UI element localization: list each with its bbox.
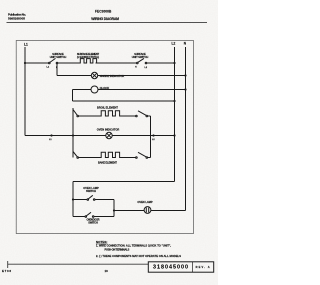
wire oven left rail (72, 108, 74, 158)
svg-text:OVEN LAMP: OVEN LAMP (137, 200, 152, 204)
label surface unit switch (right) (132, 52, 149, 59)
footer rule (8, 263, 149, 265)
svg-text:NOTES:: NOTES: (96, 240, 107, 244)
node junction signal-N (184, 74, 186, 76)
switch oven door switch (85, 212, 94, 217)
switch surface unit switch (right) (135, 58, 148, 68)
wire oven feed from L1 (25, 135, 73, 137)
wire oven lamp row to N (151, 210, 186, 212)
label surface element (77, 52, 100, 59)
switch bake left (73, 152, 78, 159)
wire clock row to N (98, 89, 186, 91)
wire row1 left (25, 62, 49, 64)
resistor bake element (100, 152, 121, 157)
wire lamp block left vertical (72, 182, 74, 217)
wire oven lamp switch row (73, 199, 88, 201)
wire right rail (150, 116, 152, 158)
svg-text:(1 SHOWN 4 TOTAL): (1 SHOWN 4 TOTAL) (77, 55, 99, 59)
svg-text:BAKE ELEMENT: BAKE ELEMENT (98, 160, 117, 164)
resistor broil element (100, 111, 121, 116)
svg-text:UNIT SWITCH: UNIT SWITCH (50, 55, 67, 59)
svg-text:318045000: 318045000 (153, 265, 188, 271)
node terminal L1 tap (50, 134, 52, 136)
svg-text:WIRING DIAGRAM: WIRING DIAGRAM (91, 17, 119, 21)
svg-text:5995268005: 5995268005 (8, 17, 25, 21)
svg-text:L2: L2 (172, 42, 176, 46)
switch oven lamp switch (87, 195, 95, 200)
node junction feed-L2 (173, 100, 175, 102)
label oven lamp switch (83, 186, 99, 193)
svg-text:REV. A: REV. A (196, 265, 210, 269)
wire signal row to N (98, 75, 186, 77)
wire lamp block top (73, 181, 175, 183)
wire broil rung right (121, 115, 136, 117)
wire clock row left (73, 89, 92, 91)
lamp oven lamp (144, 207, 151, 214)
wire lamp switch row right (95, 199, 114, 201)
svg-text:SWITCH: SWITCH (88, 221, 98, 225)
svg-text:BROIL ELEMENT: BROIL ELEMENT (97, 106, 118, 110)
svg-text:E706: E706 (2, 269, 11, 273)
wire row1 right (96, 62, 138, 64)
label surface unit switch (left) (50, 52, 67, 59)
wire lamp block right vertical (113, 200, 115, 217)
label oven door switch (87, 218, 100, 225)
svg-text:OVEN INDICATOR: OVEN INDICATOR (97, 127, 120, 131)
svg-text:1. WIRE CONNECTION: ALL TERMIN: 1. WIRE CONNECTION: ALL TERMINALS QUICK … (96, 244, 171, 248)
wire bake rung right (121, 157, 136, 159)
svg-text:10: 10 (105, 269, 109, 273)
wire oven lamp row left (114, 210, 144, 212)
resistor surface element (79, 59, 97, 63)
wire indicator rung left (73, 135, 106, 137)
node junction clock-N (184, 88, 186, 90)
node junction block right (113, 209, 115, 211)
footer tick mark (7, 261, 9, 268)
wire door switch row right (94, 216, 114, 218)
part number box (148, 262, 213, 272)
switch broil left (73, 110, 78, 117)
wire row1 middle (58, 62, 79, 64)
notes text (96, 240, 181, 258)
header rule (7, 21, 208, 23)
node junction row1-L2 (173, 62, 175, 64)
node junction feed-left rail (72, 134, 74, 136)
switch bake right (136, 152, 148, 158)
switch broil right (136, 111, 148, 117)
svg-text:PUSH-ON TERMINALS: PUSH-ON TERMINALS (105, 247, 130, 251)
node junction L1-row1 (24, 62, 26, 64)
wire row1 to L2 (147, 62, 175, 64)
diagram border frame (16, 41, 193, 234)
wire N bus (185, 47, 187, 211)
wire door switch row (73, 216, 86, 218)
svg-text:UNIT SWITCH: UNIT SWITCH (132, 55, 149, 59)
wire L1 bus (24, 47, 26, 136)
switch surface unit switch (left) (47, 58, 59, 68)
lamp clock motor (91, 86, 98, 93)
svg-text:SWITCH: SWITCH (86, 189, 96, 193)
wire clock drop (72, 90, 74, 102)
header publication text (8, 9, 119, 21)
svg-text:2. ( ) THESE COMPONENTS MAY NO: 2. ( ) THESE COMPONENTS MAY NOT OPERATE … (96, 254, 181, 258)
node junction exit-L2 (173, 134, 175, 136)
node junction block left (72, 198, 74, 200)
svg-text:FEC3006B: FEC3006B (95, 9, 112, 13)
wire clock feed to L2 (73, 100, 175, 102)
wire broil rung left (79, 115, 101, 117)
lamp signal indicator (91, 72, 97, 78)
node terminal L2 tap (152, 134, 154, 136)
wire bake rung left (79, 157, 101, 159)
wire broil to right rail (148, 115, 151, 117)
svg-text:L1: L1 (24, 42, 28, 46)
wire indicator rung right (112, 135, 150, 137)
lamp oven indicator (106, 132, 112, 138)
wire right rail exit to L2 (151, 135, 175, 137)
wire L2 bus (174, 47, 176, 182)
wire bake to right rail (148, 157, 151, 159)
wire signal row left (57, 75, 91, 77)
wire drop to signal row (56, 64, 58, 76)
